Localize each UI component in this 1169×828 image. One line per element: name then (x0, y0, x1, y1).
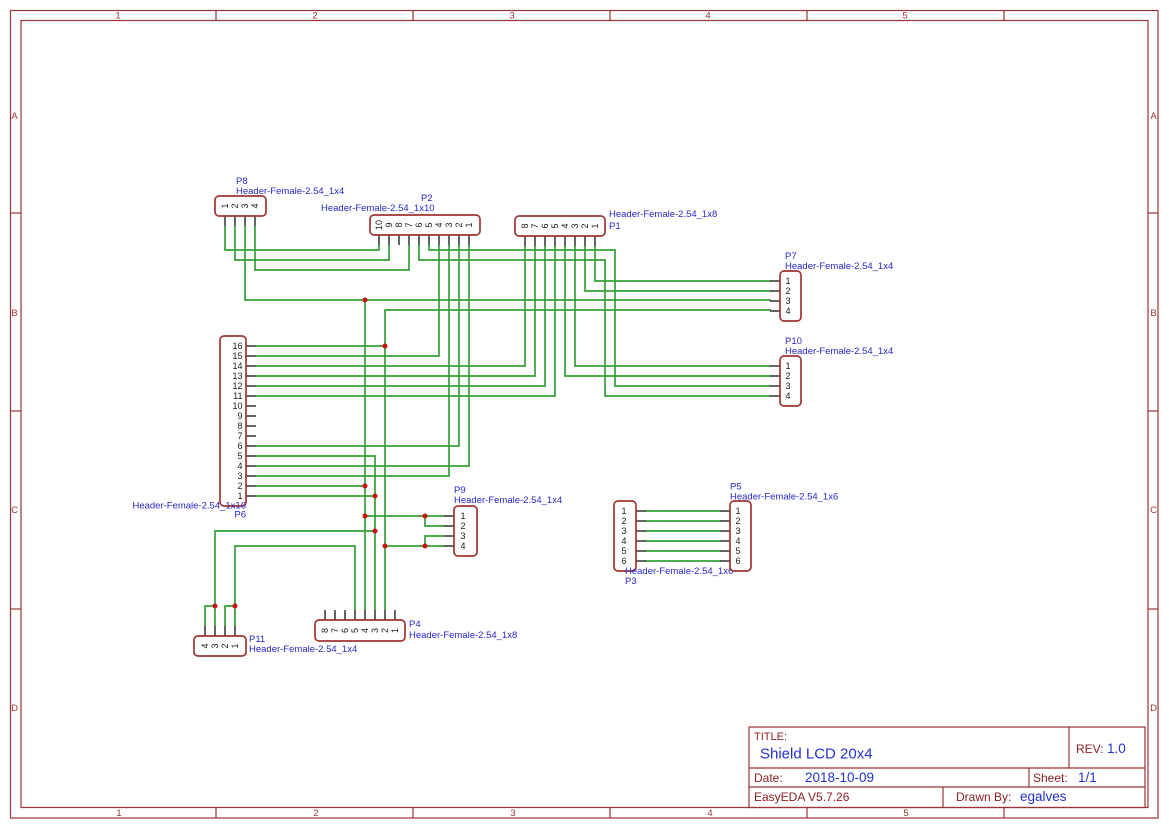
frame column numbers top (115, 11, 907, 22)
svg-text:2: 2 (230, 203, 240, 208)
svg-text:9: 9 (237, 411, 242, 421)
svg-text:Date:: Date: (754, 771, 783, 785)
svg-text:4: 4 (621, 536, 626, 546)
svg-text:Header-Female-2.54_1x4: Header-Female-2.54_1x4 (454, 495, 562, 506)
svg-text:2: 2 (312, 11, 317, 22)
wire P8.2 to P2.9 (235, 226, 389, 260)
svg-text:5: 5 (350, 628, 360, 633)
svg-text:8: 8 (320, 628, 330, 633)
svg-text:Header-Female-2.54_1x8: Header-Female-2.54_1x8 (409, 630, 517, 641)
svg-text:2: 2 (785, 286, 790, 296)
svg-text:Drawn By:: Drawn By: (956, 790, 1011, 804)
connector P8 Header-Female-2.54_1x4 (215, 176, 344, 226)
connector P3 Header-Female-2.54_1x6 (614, 501, 733, 587)
svg-text:Header-Female-2.54_1x16: Header-Female-2.54_1x16 (132, 501, 246, 512)
svg-text:6: 6 (340, 628, 350, 633)
svg-text:3: 3 (370, 628, 380, 633)
svg-text:1/1: 1/1 (1078, 770, 1097, 785)
junction at 425,516 (423, 514, 428, 519)
svg-text:4: 4 (200, 643, 210, 648)
svg-text:Header-Female-2.54_1x4: Header-Female-2.54_1x4 (249, 644, 357, 655)
svg-text:4: 4 (360, 628, 370, 633)
svg-text:3: 3 (460, 531, 465, 541)
wire P2.2 to P6.6 (256, 245, 459, 446)
svg-text:1: 1 (390, 628, 400, 633)
wire P1.6 to P6.12 (256, 246, 545, 386)
svg-text:6: 6 (735, 556, 740, 566)
svg-text:7: 7 (404, 222, 414, 227)
connector P5 Header-Female-2.54_1x6 (720, 482, 838, 572)
svg-text:P3: P3 (625, 576, 637, 587)
wire P1.2 to P7.2 (585, 246, 771, 291)
svg-text:4: 4 (735, 536, 740, 546)
wire net D4 to P9.1 (365, 515, 445, 517)
wire P1.5 to P6.11 (256, 246, 555, 396)
svg-text:3: 3 (785, 296, 790, 306)
connector P10 Header-Female-2.54_1x4 (770, 336, 893, 406)
svg-text:16: 16 (232, 341, 242, 351)
svg-text:7: 7 (237, 431, 242, 441)
svg-text:4: 4 (434, 222, 444, 227)
wire net D5 to P9.4 (385, 545, 445, 547)
svg-text:1: 1 (115, 11, 120, 22)
svg-text:P1: P1 (609, 221, 621, 232)
svg-text:2018-10-09: 2018-10-09 (805, 770, 874, 785)
svg-text:2: 2 (380, 628, 390, 633)
svg-text:1: 1 (116, 808, 121, 819)
svg-text:1: 1 (785, 361, 790, 371)
svg-text:1: 1 (460, 511, 465, 521)
connector P4 Header-Female-2.54_1x8 (315, 610, 517, 641)
svg-text:10: 10 (374, 220, 384, 230)
svg-text:3: 3 (509, 11, 514, 22)
junction at 375,531 (373, 529, 378, 534)
title block values (760, 741, 1126, 804)
svg-text:1: 1 (220, 203, 230, 208)
wire P6.1 to net D6 (256, 495, 375, 497)
svg-text:1: 1 (735, 506, 740, 516)
wire net D5 branch to P9.3 (425, 536, 445, 546)
svg-text:5: 5 (902, 11, 907, 22)
svg-text:Header-Female-2.54_1x8: Header-Female-2.54_1x8 (609, 209, 717, 220)
svg-text:P6: P6 (234, 510, 246, 521)
svg-text:5: 5 (550, 223, 560, 228)
svg-text:Header-Female-2.54_1x6: Header-Female-2.54_1x6 (625, 566, 733, 577)
svg-text:A: A (11, 111, 18, 122)
svg-text:egalves: egalves (1020, 789, 1067, 804)
svg-text:10: 10 (232, 401, 242, 411)
svg-text:C: C (11, 505, 18, 516)
svg-text:2: 2 (621, 516, 626, 526)
frame row letters right (1150, 111, 1157, 714)
svg-text:13: 13 (232, 371, 242, 381)
svg-text:2: 2 (735, 516, 740, 526)
svg-text:4: 4 (707, 808, 712, 819)
svg-text:7: 7 (330, 628, 340, 633)
connector P9 Header-Female-2.54_1x4 (444, 485, 562, 556)
svg-text:A: A (1150, 111, 1157, 122)
svg-text:4: 4 (560, 223, 570, 228)
svg-text:Header-Female-2.54_1x4: Header-Female-2.54_1x4 (785, 346, 893, 357)
wire P1.1 to P7.1 (595, 246, 771, 281)
junction at 375,496 (373, 494, 378, 499)
svg-text:7: 7 (530, 223, 540, 228)
svg-text:4: 4 (250, 203, 260, 208)
svg-text:3: 3 (785, 381, 790, 391)
svg-text:9: 9 (384, 222, 394, 227)
wire P2.6 to P10.4 (419, 245, 771, 396)
svg-text:8: 8 (520, 223, 530, 228)
svg-text:Sheet:: Sheet: (1033, 771, 1068, 785)
svg-text:1: 1 (230, 643, 240, 648)
svg-text:6: 6 (621, 556, 626, 566)
svg-text:TITLE:: TITLE: (754, 731, 787, 743)
wire P3.2 to P5.2 (645, 520, 721, 522)
svg-text:D: D (1150, 703, 1157, 714)
svg-text:Header-Female-2.54_1x4: Header-Female-2.54_1x4 (236, 186, 344, 197)
junction at 365,300 (363, 298, 368, 303)
svg-text:3: 3 (237, 471, 242, 481)
junction at 385,346 (383, 344, 388, 349)
wire P6.16 to net D5 (256, 345, 385, 347)
wire P1.7 to P6.13 (256, 246, 535, 376)
svg-text:4: 4 (705, 11, 710, 22)
wire P6.2 to net D4 (256, 485, 365, 487)
svg-text:3: 3 (510, 808, 515, 819)
svg-text:1: 1 (464, 222, 474, 227)
svg-text:2: 2 (580, 223, 590, 228)
wire P3.6 to P5.6 (645, 560, 721, 562)
svg-text:3: 3 (621, 526, 626, 536)
wire P1.4 to P10.2 (565, 246, 771, 376)
junction at 365,486 (363, 484, 368, 489)
wire net D7: P4.5 to P11.1 (235, 546, 355, 626)
svg-text:3: 3 (570, 223, 580, 228)
svg-text:1: 1 (590, 223, 600, 228)
connector P1 Header-Female-2.54_1x8 (515, 209, 717, 246)
svg-text:Header-Female-2.54_1x6: Header-Female-2.54_1x6 (730, 492, 838, 503)
svg-text:B: B (1150, 308, 1156, 319)
connector P7 Header-Female-2.54_1x4 (770, 251, 893, 321)
title block texts (754, 731, 1104, 804)
junction at 215,606 (213, 604, 218, 609)
svg-text:3: 3 (210, 643, 220, 648)
svg-text:5: 5 (424, 222, 434, 227)
wire P8.4 to P2.7 (255, 226, 409, 270)
svg-text:3: 3 (735, 526, 740, 536)
wire P3.4 to P5.4 (645, 540, 721, 542)
wire P2.3 to P6.3 (256, 245, 449, 476)
frame column numbers bottom (116, 808, 908, 819)
junction at 385,546 (383, 544, 388, 549)
wire P2.5 to P10.3 (429, 245, 771, 386)
svg-text:C: C (1150, 505, 1157, 516)
wire P8.1 to P2.10 (225, 226, 379, 250)
svg-text:3: 3 (444, 222, 454, 227)
svg-text:1: 1 (785, 276, 790, 286)
svg-text:2: 2 (785, 371, 790, 381)
wire net D5: P7.4 vertical to P4.2 (385, 310, 771, 610)
svg-text:5: 5 (903, 808, 908, 819)
wire net D6 branch to P11.4 (205, 606, 215, 626)
svg-text:1.0: 1.0 (1107, 741, 1126, 756)
svg-text:2: 2 (460, 521, 465, 531)
svg-text:3: 3 (240, 203, 250, 208)
wire P1.8 to P6.14 (256, 246, 525, 366)
svg-text:14: 14 (232, 361, 242, 371)
svg-text:8: 8 (237, 421, 242, 431)
frame row letters left (11, 111, 18, 714)
wire net D4 vertical to P4.4 (364, 300, 366, 610)
svg-text:P4: P4 (409, 619, 421, 630)
title block (749, 727, 1145, 808)
svg-text:2: 2 (454, 222, 464, 227)
connector P6 Header-Female-2.54_1x16 (132, 336, 256, 521)
wire P3.1 to P5.1 (645, 510, 721, 512)
svg-text:REV:: REV: (1076, 742, 1104, 756)
svg-text:5: 5 (735, 546, 740, 556)
wire P2.1 to P6.4 (256, 245, 469, 466)
junction at 235,606 (233, 604, 238, 609)
svg-text:Shield LCD 20x4: Shield LCD 20x4 (760, 746, 873, 763)
wire P1.3 to P10.1 (575, 246, 771, 366)
wire net D4: P8.3 to P7.3 (245, 226, 771, 300)
connector P11 Header-Female-2.54_1x4 (194, 626, 357, 656)
connector P2 Header-Female-2.54_1x10 (321, 193, 480, 245)
svg-text:4: 4 (237, 461, 242, 471)
svg-text:15: 15 (232, 351, 242, 361)
svg-text:11: 11 (233, 391, 242, 401)
svg-text:2: 2 (220, 643, 230, 648)
svg-text:B: B (11, 308, 17, 319)
wire net D6 to P11.3 (215, 531, 375, 626)
svg-text:6: 6 (540, 223, 550, 228)
svg-text:6: 6 (414, 222, 424, 227)
svg-text:2: 2 (313, 808, 318, 819)
svg-text:2: 2 (237, 481, 242, 491)
junction at 365,516 (363, 514, 368, 519)
svg-text:6: 6 (237, 441, 242, 451)
svg-text:4: 4 (785, 391, 790, 401)
svg-text:D: D (11, 703, 18, 714)
junction at 425,546 (423, 544, 428, 549)
svg-text:12: 12 (232, 381, 242, 391)
wire P3.5 to P5.5 (645, 550, 721, 552)
svg-text:1: 1 (621, 506, 626, 516)
svg-text:Header-Female-2.54_1x4: Header-Female-2.54_1x4 (785, 261, 893, 272)
wire net D7 branch to P11.2 (225, 606, 235, 626)
svg-text:5: 5 (237, 451, 242, 461)
wire P2.4 to P6.15 (256, 245, 439, 356)
wire P3.3 to P5.3 (645, 530, 721, 532)
wire net D4 branch to P9.2 (425, 516, 445, 526)
svg-text:EasyEDA V5.7.26: EasyEDA V5.7.26 (754, 790, 850, 804)
wire net D6: P6.5 vertical to P4.3 (256, 456, 375, 610)
svg-text:4: 4 (460, 541, 465, 551)
svg-text:Header-Female-2.54_1x10: Header-Female-2.54_1x10 (321, 203, 435, 214)
svg-text:4: 4 (785, 306, 790, 316)
svg-text:5: 5 (621, 546, 626, 556)
svg-text:8: 8 (394, 222, 404, 227)
